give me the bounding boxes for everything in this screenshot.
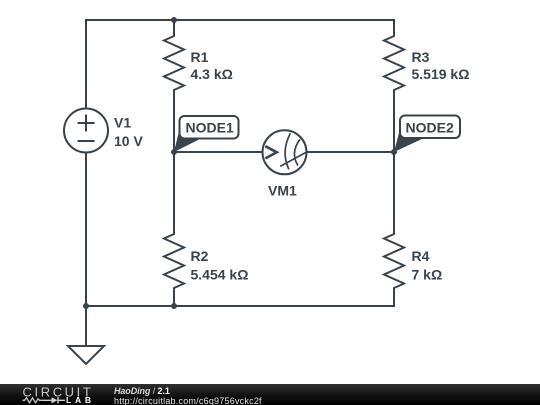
label R4 value	[412, 248, 443, 283]
svg-text:R1: R1	[191, 49, 209, 65]
wire left vertical V1 bottom lead	[85, 153, 87, 307]
wire bottom horizontal	[86, 305, 394, 307]
svg-text:R3: R3	[412, 49, 430, 65]
svg-text:LAB: LAB	[66, 395, 95, 405]
circuitlab logo	[21, 386, 95, 405]
node NODE1 flag	[174, 116, 239, 152]
ground symbol	[68, 346, 104, 364]
svg-text:5.519 kΩ: 5.519 kΩ	[412, 66, 470, 82]
node R2 bottom junction	[171, 303, 177, 309]
svg-text:10 V: 10 V	[114, 133, 143, 149]
svg-text:7 kΩ: 7 kΩ	[412, 267, 443, 283]
wire voltmeter to node2	[307, 151, 395, 153]
wire node1 to voltmeter	[174, 151, 263, 153]
svg-text:NODE2: NODE2	[406, 120, 454, 136]
wire top horizontal from V1 top to R3 top	[86, 19, 394, 21]
resistor R2	[164, 152, 184, 306]
svg-text:VM1: VM1	[268, 183, 297, 199]
voltmeter VM1	[263, 130, 307, 174]
voltage source V1	[64, 109, 108, 153]
footer title text	[114, 386, 170, 396]
footer bar	[0, 384, 540, 405]
label R3 value	[412, 49, 470, 82]
svg-text:R2: R2	[191, 248, 209, 264]
svg-text:4.3 kΩ: 4.3 kΩ	[191, 66, 233, 82]
resistor R4	[384, 152, 404, 306]
node NODE1 junction	[171, 149, 177, 155]
resistor R1	[164, 20, 184, 152]
node NODE2 junction	[391, 149, 397, 155]
svg-text:R4: R4	[412, 248, 430, 264]
node ground junction	[83, 303, 89, 309]
label R1 value	[191, 49, 233, 82]
wire left vertical V1 top lead	[85, 20, 87, 109]
node A junction top	[171, 17, 177, 23]
svg-text:5.454 kΩ: 5.454 kΩ	[191, 267, 249, 283]
ground wire lead	[85, 306, 87, 346]
label V1 value	[114, 115, 143, 150]
node NODE2 flag	[394, 116, 460, 153]
resistor R3	[384, 20, 404, 152]
svg-text:NODE1: NODE1	[186, 120, 234, 136]
label R2 value	[191, 248, 249, 283]
svg-text:V1: V1	[114, 115, 131, 131]
label VM1	[268, 183, 297, 199]
footer url text	[114, 396, 262, 405]
